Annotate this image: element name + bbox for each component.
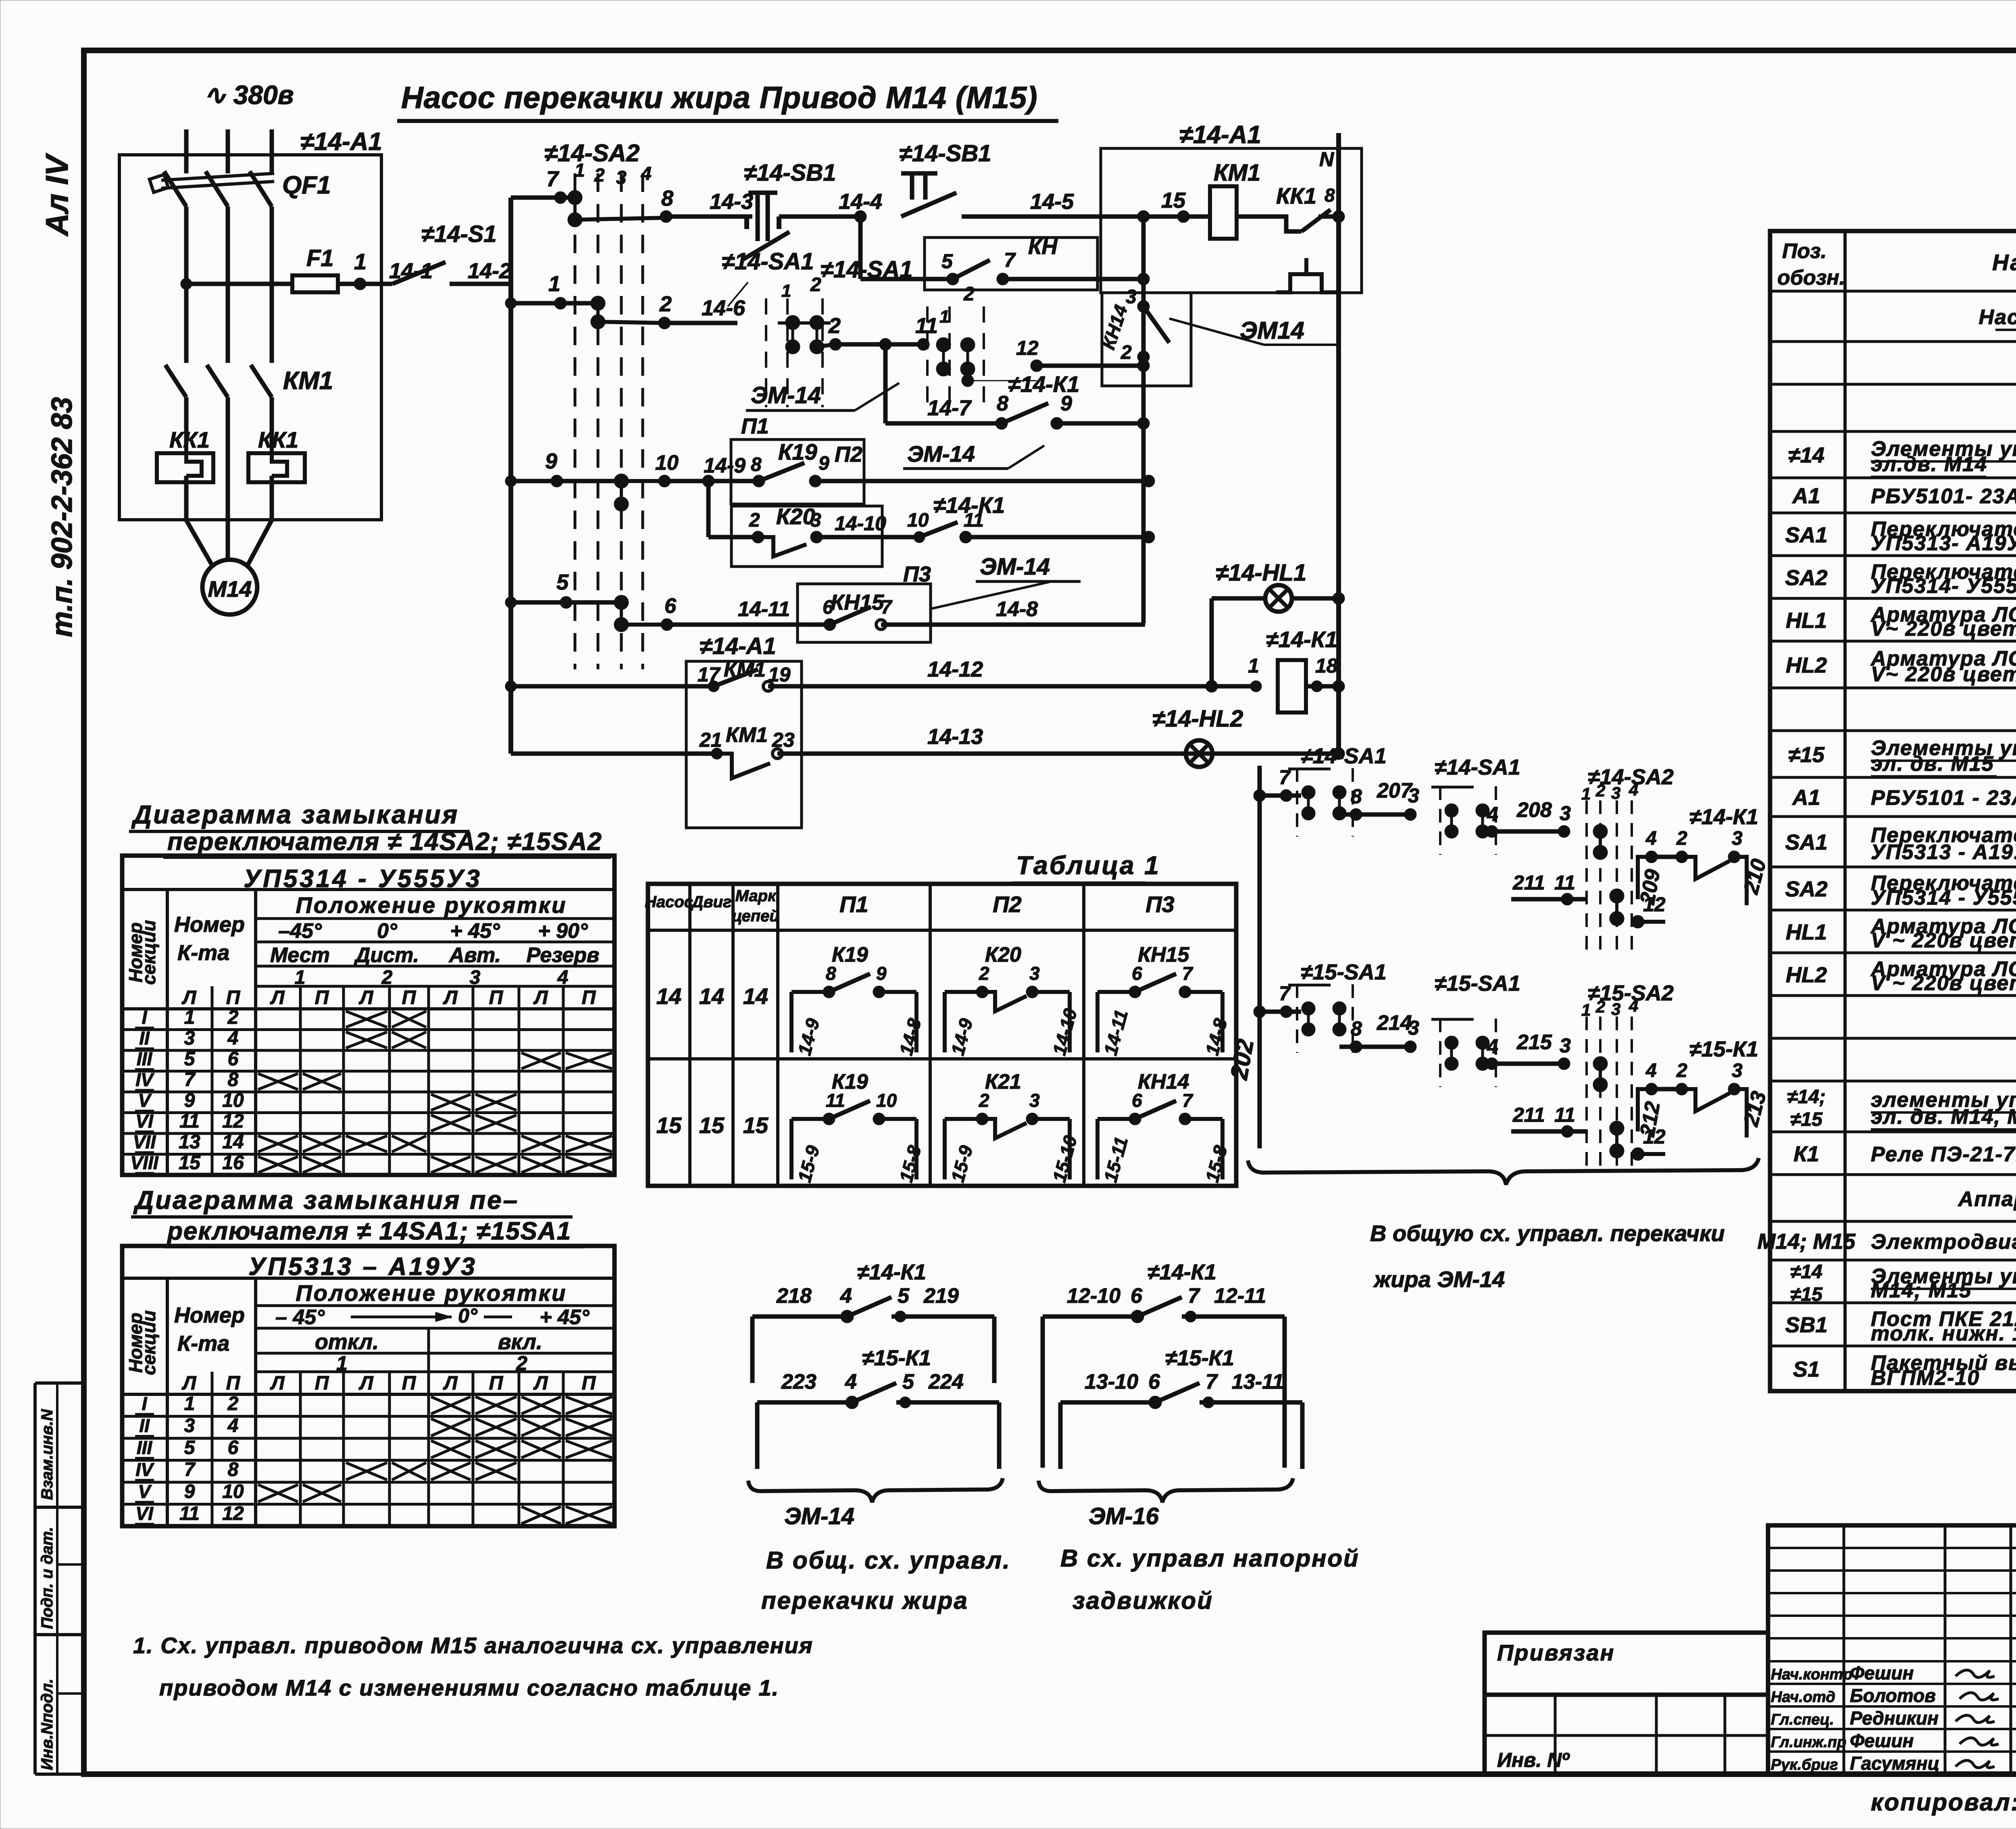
switch #14-SA2 dashed columns [574,173,577,669]
svg-text:Л: Л [533,987,548,1008]
svg-text:Наименование: Наименование [1992,250,2016,275]
svg-text:4: 4 [1487,1035,1498,1058]
svg-text:9: 9 [184,1481,195,1502]
svg-text:Реле ПЭ-21-7У3 V~ 220в: Реле ПЭ-21-7У3 V~ 220в [1871,1143,2016,1166]
svg-text:ЭМ-14: ЭМ-14 [980,554,1050,580]
svg-text:12: 12 [222,1111,244,1132]
svg-text:Нач.контр: Нач.контр [1771,1666,1852,1683]
svg-text:0°: 0° [458,1304,478,1327]
switch 14-SA1a 2-dot group [1296,768,1298,837]
svg-text:III: III [137,1437,153,1458]
svg-text:11: 11 [179,1111,200,1132]
svg-text:– 45°: – 45° [275,1306,325,1329]
svg-text:5: 5 [941,250,953,273]
svg-text:Номер: Номер [174,912,245,937]
svg-text:2: 2 [963,283,975,305]
diagram table УП5314 - У555У3 [122,856,614,1175]
svg-text:≠15: ≠15 [1790,1284,1823,1305]
svg-text:II: II [139,1415,150,1436]
svg-text:Таблица 1: Таблица 1 [1016,851,1160,880]
svg-text:3: 3 [1611,783,1620,802]
svg-text:SВ1: SВ1 [1785,1313,1827,1337]
svg-text:HL2: HL2 [1786,653,1827,677]
svg-text:3: 3 [1732,1060,1743,1081]
svg-text:≠15-SA1: ≠15-SA1 [1301,960,1387,984]
svg-text:I: I [142,1007,148,1028]
svg-text:V ~ 220в цвет красн: V ~ 220в цвет красн [1871,929,2016,952]
svg-text:жира ЭМ-14: жира ЭМ-14 [1373,1267,1505,1292]
svg-text:3: 3 [1611,1000,1620,1019]
svg-text:+ 90°: + 90° [538,919,588,943]
svg-text:6: 6 [1148,1370,1160,1394]
svg-text:УП5313 - А19У3 рев: УП5313 - А19У3 рев [1871,840,2016,864]
svg-text:SА1: SА1 [1785,523,1827,547]
svg-text:обозн.: обозн. [1777,266,1845,290]
svg-text:VIII: VIII [130,1152,158,1173]
svg-text:П: П [315,987,329,1008]
table1 contact КН14 [1095,1119,1100,1179]
svg-text:1: 1 [548,272,560,296]
svg-text:14-2: 14-2 [468,259,511,283]
svg-text:7: 7 [1004,249,1016,271]
table1 contact КН15 [1095,992,1100,1052]
svg-text:7: 7 [881,597,893,618]
svg-text:6: 6 [664,594,677,618]
thermal relay heater KK1 (right) [248,453,305,482]
svg-text:7: 7 [184,1069,196,1091]
svg-text:Л: Л [182,1373,197,1394]
svg-text:9: 9 [818,453,829,474]
svg-text:ЭМ-14: ЭМ-14 [751,382,821,408]
fragment contact &#8800;15-К1 [755,1402,760,1469]
svg-text:Инв. Nº: Инв. Nº [1497,1749,1570,1771]
wire 1 [511,301,598,306]
node 1 [354,278,366,290]
svg-text:Л: Л [359,987,374,1008]
svg-text:2: 2 [1595,997,1605,1016]
bus 202 [1258,766,1262,1148]
svg-text:3: 3 [810,510,821,531]
svg-text:13-10: 13-10 [1085,1370,1138,1394]
svg-text:Гасумянц: Гасумянц [1850,1753,1939,1774]
svg-text:4: 4 [1645,1060,1657,1081]
svg-text:копировал: Мв: копировал: Мв [1871,1789,2016,1816]
svg-text:10: 10 [907,510,929,531]
svg-text:Ал IV: Ал IV [39,153,75,237]
svg-text:П: П [582,1373,596,1394]
svg-text:Л: Л [443,987,458,1008]
wires converging to motor [186,520,212,565]
lamp HL1 [1265,585,1292,612]
svg-text:6: 6 [823,597,833,618]
svg-text:3: 3 [1560,1034,1571,1057]
svg-text:V ~ 220в цвет зелен.: V ~ 220в цвет зелен. [1871,972,2016,995]
svg-text:Редникин: Редникин [1850,1708,1939,1729]
fragment contact &#8800;15-К1 [1058,1402,1063,1469]
svg-text:10: 10 [222,1090,244,1111]
svg-text:КМ1: КМ1 [283,367,333,395]
box P1 with K19 [731,440,864,504]
contactor KM1 main contacts [165,365,186,397]
svg-text:9: 9 [545,449,557,473]
svg-text:≠14: ≠14 [1788,443,1824,467]
svg-text:Фешин: Фешин [1850,1662,1914,1683]
svg-text:Насос: Насос [645,893,693,911]
svg-text:10: 10 [655,451,679,475]
wire 10 / 14-9 [621,479,664,483]
svg-text:≠15: ≠15 [1790,1109,1823,1130]
svg-text:2: 2 [659,292,672,316]
wire 12 [1037,364,1143,368]
svg-text:13: 13 [179,1131,200,1153]
svg-text:Л: Л [270,987,285,1008]
electromagnet box EM14 [1102,293,1191,386]
svg-text:Л: Л [443,1373,458,1394]
svg-text:4: 4 [227,1415,239,1437]
svg-text:F1: F1 [306,245,334,271]
svg-text:12-10: 12-10 [1067,1284,1120,1308]
svg-text:секции: секции [138,1310,159,1375]
SA2 contact 5-6 [614,595,629,632]
table1 contact К20 [943,992,947,1052]
svg-text:1. Сх. управл. приводом М15: 1. Сх. управл. приводом М15 аналогична с… [133,1633,813,1658]
svg-text:В сх. управл напорной: В сх. управл напорной [1060,1545,1360,1572]
svg-text:14-8: 14-8 [996,598,1038,621]
vertical from 14-9 junction [706,481,711,537]
svg-text:2: 2 [828,314,841,338]
fuse F1 [292,275,338,292]
svg-text:Положение рукоятки: Положение рукоятки [296,1280,567,1306]
interlock box KN [925,237,1098,290]
signature grid [1768,1525,2016,1774]
SA2 contact 1-2 [591,296,605,329]
svg-text:3: 3 [1029,1090,1040,1111]
svg-text:1: 1 [1581,1000,1591,1019]
svg-text:Гл.спец.: Гл.спец. [1771,1711,1834,1728]
svg-text:1: 1 [184,1393,195,1414]
svg-text:К20: К20 [776,504,815,529]
svg-text:≠14-К1: ≠14-К1 [1689,805,1758,829]
svg-text:УП5314 - У555У3 рев: УП5314 - У555У3 рев [1871,886,2016,909]
wire 14-7 [883,344,888,423]
svg-text:12: 12 [1643,893,1666,916]
svg-text:8: 8 [997,392,1008,415]
svg-text:21: 21 [699,729,722,751]
svg-text:15: 15 [179,1152,201,1174]
fuse F1 wire [186,282,292,286]
svg-text:8: 8 [1351,785,1362,808]
svg-text:V~ 220в цвет зелен.: V~ 220в цвет зелен. [1871,662,2016,686]
svg-text:5: 5 [184,1437,196,1458]
svg-text:Инв.Nподл.: Инв.Nподл. [38,1679,56,1770]
svg-text:3: 3 [1029,963,1040,984]
enclosure box #14-A1 (power) [119,155,381,520]
svg-text:3: 3 [1126,286,1137,308]
svg-text:10: 10 [876,1090,897,1111]
svg-text:т.п. 902-2-362 83: т.п. 902-2-362 83 [46,397,78,637]
svg-text:14-1: 14-1 [389,259,433,283]
svg-text:+ 45°: + 45° [539,1306,590,1329]
svg-text:≠14-SA1: ≠14-SA1 [821,256,913,283]
start button SB1 (NO) [854,210,866,223]
SA2 contact 7-8 [568,190,582,227]
svg-text:5: 5 [902,1370,914,1394]
svg-text:К-та: К-та [177,1331,229,1356]
svg-text:4: 4 [1645,828,1657,849]
svg-text:А1: А1 [1791,484,1820,508]
svg-text:К-та: К-та [177,941,229,965]
svg-text:4: 4 [227,1028,239,1049]
svg-text:–45°: –45° [278,919,322,943]
svg-text:2: 2 [227,1007,239,1028]
svg-text:откл.: откл. [315,1330,379,1354]
svg-text:QF1: QF1 [282,171,331,199]
svg-text:Насосная станция: Насосная станция [1979,306,2016,329]
svg-text:секции: секции [138,920,159,985]
left control bus [508,198,513,754]
fragment group 15 [1254,1006,1266,1018]
svg-text:2: 2 [749,510,760,531]
svg-text:≠15: ≠15 [1788,743,1825,767]
svg-text:14-3: 14-3 [710,190,753,214]
svg-text:2: 2 [810,274,821,296]
svg-text:ЭМ-14: ЭМ-14 [907,441,975,467]
svg-text:≠14: ≠14 [1790,1261,1822,1283]
svg-text:1: 1 [781,281,791,301]
svg-text:13-11: 13-11 [1232,1370,1284,1394]
svg-text:1: 1 [1248,654,1259,677]
svg-text:М14; М15: М14; М15 [1871,1279,1972,1302]
svg-text:Положение рукоятки: Положение рукоятки [296,892,567,918]
svg-text:Л: Л [533,1373,548,1394]
disconnect switch #14-S1 [360,282,392,286]
wire 14-12 [511,684,714,689]
svg-text:14-12: 14-12 [927,657,983,681]
svg-text:приводом М14 с изменениями: приводом М14 с изменениями согласно табл… [159,1675,779,1700]
svg-text:15: 15 [699,1112,725,1138]
svg-text:Двиг: Двиг [691,893,732,911]
svg-text:П1: П1 [839,892,868,917]
contactor coil KM1 [1210,186,1237,239]
svg-text:14-7: 14-7 [927,396,972,420]
svg-text:2: 2 [1595,781,1605,800]
svg-text:2: 2 [1120,342,1132,363]
Table 1 frame [648,884,1236,1186]
svg-text:реключателя ≠ 14SA1; ≠15SA1: реключателя ≠ 14SA1; ≠15SA1 [167,1217,571,1245]
svg-text:Номер: Номер [174,1303,245,1327]
svg-text:2: 2 [227,1393,239,1414]
svg-text:≠14-К1: ≠14-К1 [1148,1260,1216,1284]
svg-text:задвижкой: задвижкой [1073,1587,1213,1614]
svg-text:11: 11 [964,510,984,531]
svg-text:1: 1 [939,307,949,327]
svg-text:12-11: 12-11 [1214,1284,1266,1308]
svg-text:≠15-SA1: ≠15-SA1 [1435,971,1520,996]
svg-text:Электродвигатель ∿ 380в: Электродвигатель ∿ 380в [1871,1230,2016,1254]
svg-text:3: 3 [616,167,627,188]
svg-text:Диаграмма замыкания пе–: Диаграмма замыкания пе– [133,1185,519,1214]
svg-text:8: 8 [1351,1017,1362,1040]
svg-text:эл. дв. М15: эл. дв. М15 [1871,752,1994,775]
lamp HL2 [1186,740,1212,767]
svg-text:4: 4 [840,1284,852,1308]
svg-text:15: 15 [656,1112,682,1138]
svg-text:II: II [139,1028,150,1049]
table1 contact К21 [943,1119,947,1179]
svg-text:3: 3 [184,1415,195,1437]
svg-text:К20: К20 [985,943,1021,967]
svg-text:2: 2 [1676,1060,1687,1081]
svg-text:VI: VI [135,1503,154,1524]
svg-text:≠14-К1: ≠14-К1 [1266,627,1337,652]
svg-text:1: 1 [184,1007,195,1028]
svg-text:Авт.: Авт. [448,944,501,967]
wire from 14-4 down to KN [858,217,863,279]
svg-text:перекачки жира: перекачки жира [761,1587,968,1614]
svg-text:П3: П3 [1145,892,1174,917]
svg-text:15: 15 [743,1112,768,1138]
svg-text:≠14-SA2: ≠14-SA2 [544,140,639,167]
svg-text:0°: 0° [377,919,398,943]
svg-text:214: 214 [1377,1011,1412,1035]
svg-text:Фешин: Фешин [1850,1730,1914,1751]
svg-text:11: 11 [179,1503,200,1525]
svg-text:Л: Л [182,987,197,1008]
svg-text:≠14-SB1: ≠14-SB1 [899,140,991,167]
switch 14-SA1b 2-dot group [1439,786,1441,855]
junction N bus [1333,210,1345,223]
svg-text:12: 12 [222,1503,244,1525]
svg-text:КК1: КК1 [169,427,210,452]
svg-text:12: 12 [1016,337,1039,359]
svg-text:Насос перекачки жира Привод: Насос перекачки жира Привод М14 (М15) [401,81,1037,115]
left margin stamp strip [35,1381,84,1385]
svg-text:1: 1 [575,160,585,181]
wire 14-13 [511,752,717,756]
wire 8 / 14-3 with stop button SB1 [575,218,666,220]
svg-text:вкл.: вкл. [498,1330,542,1354]
svg-text:К1: К1 [1793,1142,1819,1166]
motor M14 [202,560,257,615]
svg-text:≠14-SA1: ≠14-SA1 [722,248,814,275]
svg-text:8: 8 [751,454,762,475]
svg-text:≠14-А1: ≠14-А1 [300,128,382,156]
svg-text:≠15-К1: ≠15-К1 [862,1346,931,1370]
svg-text:N: N [1319,148,1334,171]
SA2 contact 9-10 [614,474,629,511]
svg-text:∿ 380в: ∿ 380в [204,80,294,110]
svg-text:14-4: 14-4 [839,190,882,214]
wire 2-11 [817,344,835,347]
stop button SB1 (NC) [756,193,760,241]
svg-text:VII: VII [133,1131,156,1152]
svg-text:215: 215 [1516,1031,1552,1054]
svg-text:Взам.инв.N: Взам.инв.N [38,1409,56,1500]
svg-text:≠14-SB1: ≠14-SB1 [744,160,836,186]
fragment contact &#8800;14-К1 [1041,1317,1045,1383]
node 12 blade [962,375,974,387]
svg-text:SА2: SА2 [1785,566,1827,590]
svg-text:4: 4 [1487,803,1498,825]
svg-text:HL1: HL1 [1786,608,1827,633]
box Привязан [1485,1633,1768,1695]
svg-text:Дист.: Дист. [354,944,419,967]
brace EM-14 [748,1478,1003,1502]
fragment contact &#8800;14-К1 [750,1317,755,1383]
svg-text:Диаграмма замыкания: Диаграмма замыкания [131,800,459,829]
svg-text:≠14-S1: ≠14-S1 [421,221,497,247]
svg-text:SА1: SА1 [1785,830,1827,854]
svg-text:УП5314- У555: УП5314- У555 [1871,575,2016,598]
svg-text:К19: К19 [832,943,868,967]
svg-text:М14; М15: М14; М15 [1757,1229,1856,1254]
svg-text:РБУ5101 - 23А2В: РБУ5101 - 23А2В [1871,786,2016,810]
svg-text:Рук.бриг: Рук.бриг [1771,1756,1838,1773]
svg-text:≠14-SA1: ≠14-SA1 [1435,755,1520,779]
svg-text:+ 45°: + 45° [450,919,500,943]
table1 contact К19 [789,992,793,1052]
svg-text:HL2: HL2 [1786,963,1827,987]
svg-text:≠14-К1: ≠14-К1 [1008,371,1079,397]
svg-text:П: П [489,1373,504,1394]
svg-text:УП5313- А19У3 рев.: УП5313- А19У3 рев. [1871,532,2016,555]
svg-text:КМ1: КМ1 [1214,160,1260,186]
svg-text:224: 224 [928,1370,964,1394]
svg-text:≠15-К1: ≠15-К1 [1689,1037,1758,1061]
svg-text:Привязан: Привязан [1497,1640,1615,1665]
svg-text:SА2: SА2 [1785,877,1827,901]
svg-text:3: 3 [1408,1017,1419,1039]
svg-text:Болотов: Болотов [1850,1685,1936,1706]
svg-text:толк. нижн. 131Р: толк. нижн. 131Р [1871,1322,2016,1345]
svg-text:I: I [142,1393,148,1414]
svg-text:Нач.отд: Нач.отд [1771,1689,1835,1706]
svg-text:5: 5 [184,1048,196,1070]
svg-text:16: 16 [222,1152,244,1174]
right N bus [1336,133,1341,754]
switch 15-SA1a 2-dot group [1296,984,1298,1053]
svg-text:К21: К21 [985,1070,1021,1094]
svg-text:≠14-SA1: ≠14-SA1 [1301,744,1387,768]
svg-text:7: 7 [1188,1284,1200,1308]
wire 2 / 14-6 [598,322,664,323]
svg-text:≠15-К1: ≠15-К1 [1165,1346,1234,1370]
svg-text:КН15: КН15 [1138,943,1189,967]
svg-text:III: III [137,1048,153,1069]
svg-text:КН: КН [1028,235,1058,259]
svg-text:П: П [315,1373,329,1394]
svg-text:15: 15 [1161,188,1186,212]
svg-text:Л: Л [359,1373,374,1394]
svg-text:8: 8 [661,186,673,210]
svg-text:10: 10 [222,1481,244,1502]
svg-text:219: 219 [923,1284,959,1308]
svg-text:3: 3 [184,1028,195,1049]
svg-text:12: 12 [1643,1125,1666,1148]
svg-text:Мест: Мест [270,944,330,967]
svg-text:≠14;: ≠14; [1787,1086,1826,1108]
svg-text:К19: К19 [832,1070,868,1094]
svg-text:УП5313 – А19У3: УП5313 – А19У3 [248,1253,477,1281]
box inv table [1485,1695,1768,1774]
svg-text:14-9: 14-9 [704,454,746,477]
svg-text:КК1: КК1 [258,427,298,452]
svg-text:HL1: HL1 [1786,920,1827,944]
svg-text:223: 223 [781,1370,816,1394]
svg-text:3: 3 [1408,784,1419,807]
wire 9 [511,479,621,483]
svg-text:3: 3 [1560,802,1571,825]
